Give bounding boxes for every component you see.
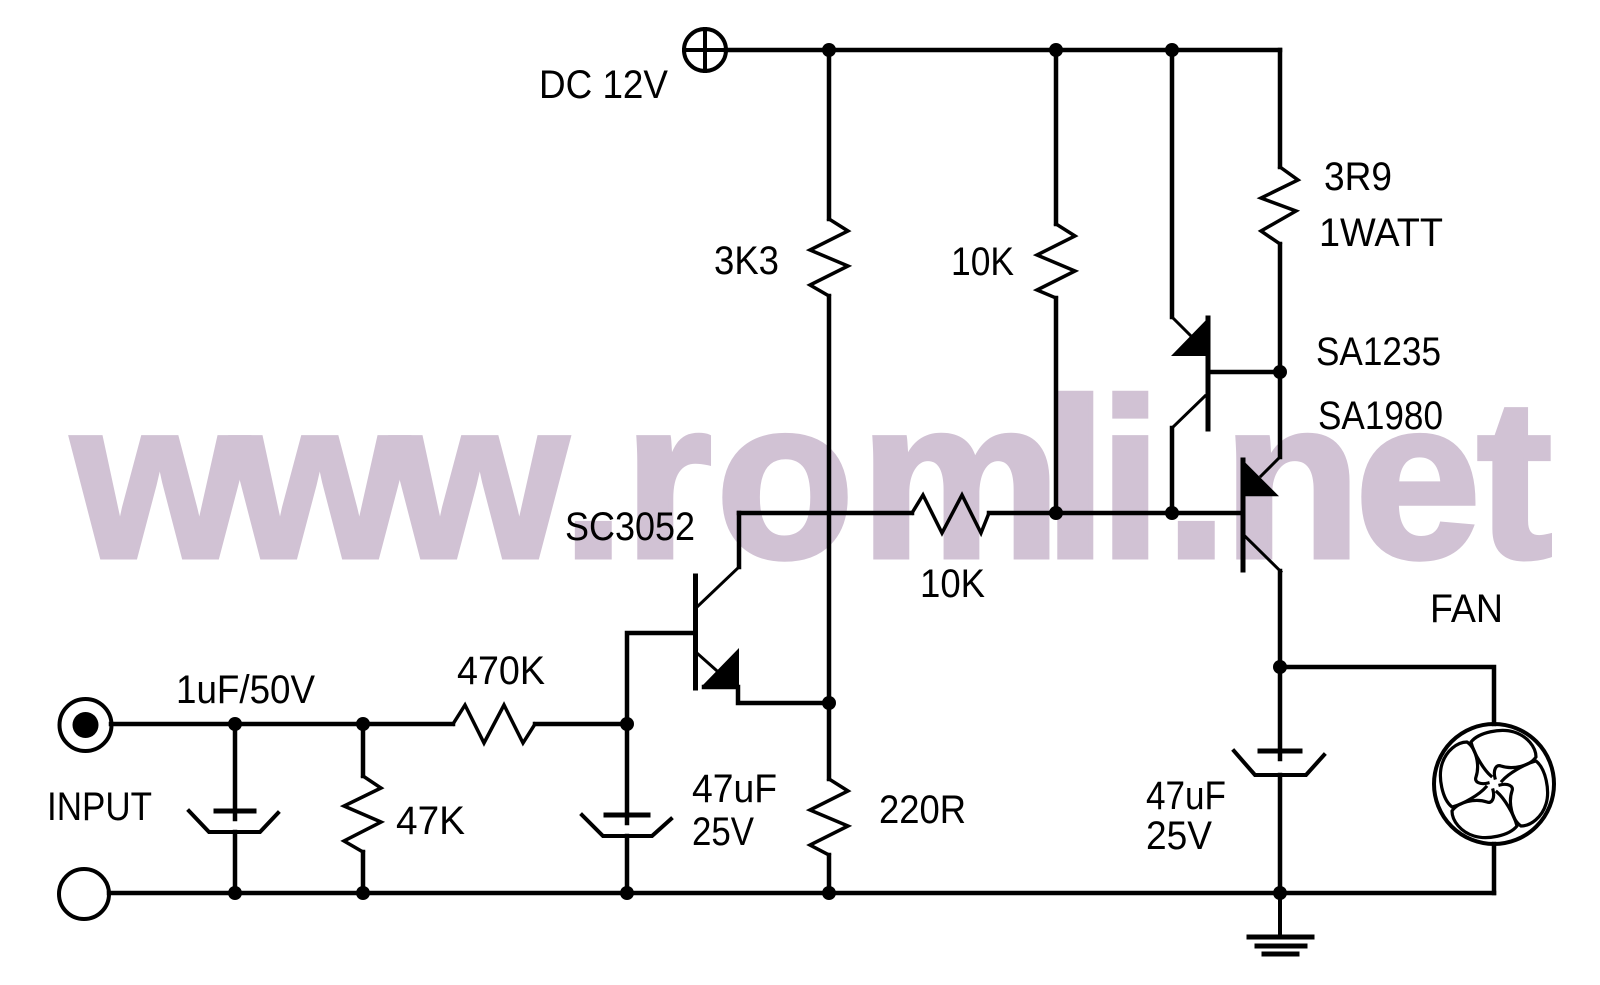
capacitor C3 bottom lead: [1278, 775, 1283, 893]
svg-text:10K: 10K: [920, 562, 985, 606]
input terminal negative: [59, 869, 109, 919]
resistor 10K horizontal: [912, 495, 989, 533]
node rail-C3-gnd: [1273, 886, 1287, 900]
capacitor C1 plate positive: [216, 809, 254, 814]
resistor 10K vertical: [1037, 224, 1075, 298]
svg-text:INPUT: INPUT: [47, 785, 152, 829]
wire Q2 collector down: [1170, 428, 1175, 513]
svg-text:220R: 220R: [879, 788, 966, 832]
resistor 47K bottom lead: [361, 852, 366, 893]
transistor Q2 SA1235 emitter diagonal: [1172, 317, 1190, 335]
resistor 3K3: [810, 219, 848, 296]
transistor Q2 SA1235 emitter arrow: [1171, 318, 1208, 356]
node 470K-C2: [620, 717, 634, 731]
capacitor C2 plate positive: [606, 813, 648, 818]
node Q2c-join: [1165, 506, 1179, 520]
ground: [1249, 893, 1312, 954]
svg-text:SA1980: SA1980: [1318, 394, 1443, 438]
wire fan branch: [1280, 667, 1494, 724]
node rail-3K3: [822, 43, 836, 57]
fan M1 blades: [1440, 730, 1547, 837]
input terminal positive: [60, 699, 112, 751]
wire 3R9 bottom lead: [1278, 244, 1283, 457]
node rail-C1: [228, 886, 242, 900]
node rail-47K: [356, 886, 370, 900]
wire fan to rail: [1492, 844, 1497, 893]
resistor 47K top lead: [361, 724, 366, 776]
fan M1 body: [1434, 724, 1554, 844]
wire Q2 base to 3R9 node: [1208, 370, 1280, 375]
capacitor C2 plate negative: [582, 815, 671, 836]
wire 470K to C2 node: [535, 722, 627, 727]
transistor Q2 SA1235 collector diagonal: [1172, 396, 1205, 428]
capacitor C3 plate negative: [1234, 751, 1324, 775]
wire Q1 emitter foot: [704, 687, 829, 703]
node 10K-bottom: [1049, 506, 1063, 520]
resistor 470K horizontal: [453, 705, 535, 743]
transistor Q1 SC3052 collector diagonal: [697, 567, 739, 607]
svg-text:47uF: 47uF: [1146, 774, 1226, 818]
power symbol DC 12V: [684, 29, 726, 71]
wire Q2 emitter from rail: [1170, 50, 1175, 317]
svg-text:470K: 470K: [457, 649, 545, 693]
transistor Q1 SC3052 base bar: [693, 576, 698, 688]
node input-C1: [228, 717, 242, 731]
capacitor C3 47uF/25V plate positive: [1260, 749, 1300, 754]
svg-text:3R9: 3R9: [1324, 155, 1392, 199]
resistor 47K: [344, 776, 381, 852]
wire top rail: [726, 48, 1280, 53]
capacitor C2 bottom lead: [625, 836, 630, 893]
transistor Q1 SC3052 emitter diagonal: [698, 654, 716, 670]
svg-text:SC3052: SC3052: [565, 505, 695, 549]
capacitor C1 bottom lead: [233, 832, 238, 893]
svg-text:3K3: 3K3: [714, 239, 779, 283]
transistor Q3 SA1980 collector diagonal: [1245, 536, 1281, 572]
svg-text:25V: 25V: [1146, 814, 1212, 858]
wire 10K bottom lead: [1054, 298, 1059, 513]
node rail-10K: [1049, 43, 1063, 57]
transistor Q1 SC3052 emitter arrow: [702, 648, 739, 686]
svg-text:47K: 47K: [396, 799, 465, 843]
svg-text:DC 12V: DC 12V: [539, 63, 668, 107]
wire Q1 base lead: [627, 633, 693, 724]
svg-text:FAN: FAN: [1430, 587, 1503, 631]
transistor Q3 SA1980 emitter diagonal: [1261, 457, 1280, 476]
wire 10K top lead: [1054, 50, 1059, 224]
node input-47K: [356, 717, 370, 731]
capacitor C1 plate negative: [189, 811, 278, 832]
wire 3K3 top lead: [827, 50, 832, 219]
wire node B horizontal (collector Q1 to base Q3): [739, 511, 912, 516]
wire input top: [111, 722, 453, 727]
wire 3K3 bottom to 220R top (through y513 crossing and y703 junction): [827, 296, 832, 779]
svg-text:SA1235: SA1235: [1316, 330, 1441, 374]
transistor Q3 SA1980 base bar: [1241, 460, 1246, 570]
capacitor C2 47uF/25V top lead: [625, 724, 630, 823]
node rail-Q2e: [1165, 43, 1179, 57]
wire Q1 collector up: [737, 513, 742, 567]
transistor Q3 SA1980 emitter arrow: [1243, 460, 1280, 497]
resistor 220R: [810, 779, 848, 855]
transistor Q2 SA1235 base bar: [1206, 318, 1211, 429]
svg-text:1WATT: 1WATT: [1319, 211, 1443, 255]
node fan-branch: [1273, 660, 1287, 674]
wire 220R bottom lead: [827, 855, 832, 893]
capacitor C1 1uF/50V top lead: [233, 724, 238, 819]
node Q1e-220R: [822, 696, 836, 710]
svg-text:www.romli.net: www.romli.net: [71, 352, 1552, 605]
svg-text:25V: 25V: [692, 810, 754, 854]
node rail-C2: [620, 886, 634, 900]
wire top rail corner to 3R9: [1278, 50, 1283, 167]
svg-text:47uF: 47uF: [692, 767, 777, 811]
wire Q3 collector down: [1278, 571, 1283, 759]
svg-text:10K: 10K: [951, 240, 1014, 284]
wire 10K horizontal to Q3 base: [989, 511, 1241, 516]
node Q2base-3R9: [1273, 365, 1287, 379]
node rail-220R: [822, 886, 836, 900]
wire bottom rail: [109, 891, 1494, 896]
resistor 3R9: [1261, 167, 1298, 244]
svg-text:1uF/50V: 1uF/50V: [176, 668, 315, 712]
